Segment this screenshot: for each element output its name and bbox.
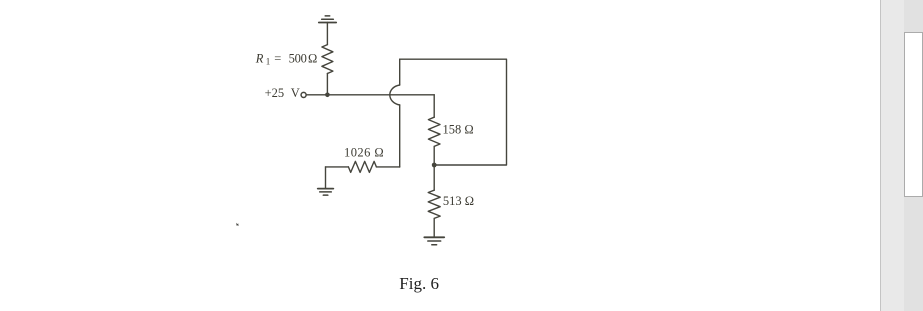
svg-text:R1=500Ω: R1=500Ω — [255, 51, 317, 66]
svg-text:158 Ω: 158 Ω — [443, 122, 474, 136]
svg-text:1026 Ω: 1026 Ω — [344, 145, 384, 159]
svg-text:513 Ω: 513 Ω — [443, 194, 474, 208]
svg-text:+25V: +25V — [265, 86, 300, 100]
svg-text:Fig. 6: Fig. 6 — [399, 274, 439, 293]
